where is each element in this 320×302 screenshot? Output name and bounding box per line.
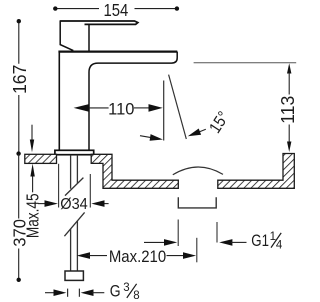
svg-text:Max.45: Max.45 (24, 193, 43, 238)
dimension G 3/8 right arrow and tick (78, 289, 80, 297)
svg-text:154: 154 (103, 1, 128, 20)
dimension Max.210 extension line (196, 238, 198, 262)
svg-text:167: 167 (10, 65, 30, 95)
dimension G1 1/4 left extension line (177, 220, 179, 247)
svg-text:G: G (110, 282, 121, 301)
svg-text:110: 110 (108, 99, 134, 118)
countertop right section with basin step (hatched) (91, 154, 178, 188)
angle 15 leader arrow to slant line (199, 129, 206, 132)
dimension Max.210 left arrow (77, 252, 90, 259)
faucet body left edge (58, 52, 60, 151)
supply pipe right line (76, 155, 78, 271)
dimension 167 end dots (17, 19, 21, 23)
svg-text:G1: G1 (251, 231, 269, 250)
dimension O34 right extension line (89, 174, 91, 208)
dimension Max.45 down arrow (31, 125, 33, 141)
dimension Max.45 up arrow (32, 175, 34, 192)
pipe break slash upper (65, 178, 83, 196)
spout outlet vertical reference line (163, 81, 165, 141)
dimension 113 top arrow (287, 63, 291, 73)
dimension Max.210 right arrow (167, 255, 185, 257)
countertop left section (hatched) (25, 154, 57, 163)
supply pipe left line (70, 155, 72, 271)
svg-text:113: 113 (278, 96, 298, 124)
dimension G1 1/4 right tick (216, 222, 218, 243)
faucet base flange (55, 150, 94, 154)
supply hose end connector (65, 271, 83, 280)
dimension O34 left arrow (38, 203, 46, 205)
dimension 154 line (55, 8, 177, 10)
faucet handle blade (60, 21, 138, 24)
pipe break slash lower (64, 212, 84, 236)
faucet handle stem (88, 24, 90, 50)
dimension 370 line (18, 154, 20, 280)
basin floor right section and right wall (hatched) (218, 154, 294, 189)
dimension 370 end dot (17, 278, 21, 282)
dimension 110 left arrow (74, 104, 89, 112)
svg-text:Max.210: Max.210 (109, 248, 166, 266)
dimension 110 right arrow (134, 107, 150, 109)
angle 15 leader arrow to vertical line (140, 136, 157, 139)
svg-text:Ø34: Ø34 (60, 195, 88, 213)
drain pop-up dome arc (173, 167, 223, 175)
spray angle slant line (169, 75, 187, 139)
dimension O34 left extension line (58, 164, 60, 208)
dimension G 3/8 left arrow and tick (45, 292, 55, 294)
dimension G1 1/4 right arrow (219, 239, 232, 246)
dimension 113 bottom arrow (288, 125, 290, 144)
dimension 167 line (18, 21, 20, 154)
drain tailpiece bracket (178, 197, 216, 208)
svg-text:4: 4 (276, 239, 283, 251)
dimension 154 end dots (53, 6, 57, 10)
svg-text:3: 3 (123, 282, 129, 294)
faucet body top (58, 50, 177, 52)
faucet handle wedge (60, 20, 73, 50)
dimension G1 1/4 left arrow (144, 241, 166, 243)
dimension O34 right arrow (103, 203, 109, 205)
faucet spout outline (89, 52, 177, 151)
svg-text:8: 8 (133, 290, 139, 302)
spout height reference line (194, 62, 297, 64)
